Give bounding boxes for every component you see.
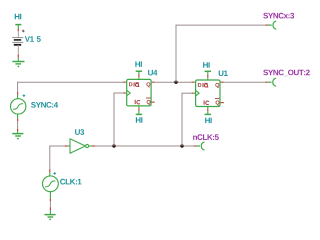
wire CLK to ground bbox=[49, 201, 51, 208]
ground (SYNC) bbox=[12, 134, 23, 140]
source SYNC plus sign bbox=[23, 94, 26, 97]
U4 Qbar pin (unconnected) bbox=[151, 101, 155, 103]
label U1 bbox=[219, 71, 228, 77]
terminal bar HI (U4 bottom) bbox=[136, 113, 142, 115]
battery V1 name label bbox=[25, 36, 34, 42]
U1 pin label Q bbox=[215, 83, 219, 88]
source CLK circle bbox=[43, 176, 59, 192]
label CLK:1 bbox=[60, 179, 81, 185]
battery V1 plus sign bbox=[22, 30, 25, 33]
inverter U3 input pin bbox=[65, 145, 70, 147]
source SYNC waveform bbox=[13, 104, 23, 110]
wire SYNCx horizontal bbox=[176, 24, 266, 26]
ground pin (CLK) bbox=[49, 208, 51, 215]
U4 pin label Qbar bbox=[146, 98, 151, 105]
junction (U1 clock branch) bbox=[180, 144, 183, 147]
ground pin (SYNC) bbox=[17, 129, 19, 134]
U4 clock pin bbox=[123, 92, 127, 94]
U1 clock pin bbox=[192, 92, 196, 94]
net label SYNC_OUT:2 bbox=[263, 70, 310, 77]
label U3 bbox=[75, 129, 84, 135]
source SYNC bottom pin bbox=[17, 114, 19, 121]
U4 clear pin bbox=[138, 106, 140, 115]
terminal bar HI (U4 top) bbox=[136, 70, 142, 72]
wire U4 clock vertical bbox=[113, 93, 115, 147]
U1 pin label D bbox=[198, 83, 202, 87]
junction (U4 clock branch) bbox=[112, 144, 115, 147]
terminal nCLK port bbox=[194, 142, 204, 150]
inverter U3 triangle bbox=[70, 139, 85, 154]
terminal bar HI (U1 top) bbox=[205, 70, 211, 72]
wire SYNC to ground bbox=[17, 121, 19, 129]
battery V1 bottom pin bbox=[17, 45, 19, 62]
wire CLK vertical bbox=[49, 146, 51, 170]
U1 pin label PR (rotated) bbox=[203, 83, 209, 88]
battery V1 value label 5 bbox=[37, 36, 41, 42]
U1 Q pin bbox=[220, 81, 224, 83]
wire U1 clock vertical bbox=[181, 93, 183, 146]
U4 pin label D bbox=[129, 82, 133, 86]
label SYNC:4 bbox=[31, 102, 58, 108]
net label nCLK:5 bbox=[193, 134, 219, 140]
junction (SYNCx branch) bbox=[174, 81, 177, 84]
wire SYNC vertical up bbox=[17, 82, 19, 93]
terminal SYNC_OUT port bbox=[265, 78, 275, 86]
battery V1 plates bbox=[12, 38, 23, 45]
wire nCLK horizontal bbox=[95, 145, 194, 147]
U4 pin label PR (rotated) bbox=[134, 82, 140, 87]
U4 preset pin bbox=[138, 71, 140, 79]
U1 Qbar pin (unconnected) bbox=[220, 102, 224, 104]
net label SYNCx:3 bbox=[263, 13, 294, 19]
flip-flop U1 body bbox=[196, 80, 220, 107]
node HI label (U1 top) bbox=[203, 62, 210, 67]
source CLK waveform bbox=[45, 181, 55, 187]
terminal bar HI (U1 bottom) bbox=[205, 113, 211, 115]
U4 pin label CL (rotated) bbox=[135, 100, 140, 104]
source SYNC top pin bbox=[17, 92, 19, 99]
U4 D pin bbox=[123, 81, 127, 83]
node HI label (battery top) bbox=[15, 14, 22, 19]
inverter U3 output pin bbox=[89, 145, 95, 147]
U4 Q pin bbox=[151, 81, 155, 83]
U1 pin label CL (rotated) bbox=[204, 100, 209, 104]
U4 pin label Q bbox=[146, 82, 150, 87]
node HI label (U4 bottom) bbox=[136, 117, 143, 123]
U1 D pin bbox=[192, 81, 196, 83]
battery V1 top pin bbox=[17, 25, 19, 38]
terminal bar HI (battery top) bbox=[15, 24, 21, 26]
wire U4 clock horizontal bbox=[114, 92, 124, 94]
U1 clear pin bbox=[207, 107, 209, 115]
wire SYNCx vertical bbox=[175, 25, 177, 83]
flip-flop U4 body bbox=[127, 79, 151, 106]
flip-flop U4 clock notch bbox=[127, 90, 130, 95]
ground (CLK) bbox=[45, 215, 56, 221]
node HI label (U4 top) bbox=[135, 61, 142, 67]
wire U1 clock horizontal bbox=[182, 92, 192, 94]
flip-flop U1 clock notch bbox=[196, 91, 199, 96]
inverter U3 bubble bbox=[86, 144, 89, 147]
wire U1 Q to SYNC_OUT bbox=[224, 81, 266, 83]
label U4 bbox=[148, 70, 157, 76]
wire CLK to U3 horizontal bbox=[49, 145, 65, 147]
U1 preset pin bbox=[207, 71, 209, 80]
wire U4 Q to U1 D bbox=[155, 81, 192, 83]
U1 pin label Qbar bbox=[215, 99, 220, 106]
wire SYNC to U4 D horizontal bbox=[17, 81, 123, 83]
source CLK bottom pin bbox=[49, 192, 51, 201]
source SYNC circle bbox=[11, 99, 26, 114]
source CLK top pin bbox=[49, 169, 51, 176]
terminal SYNCx port bbox=[266, 21, 276, 29]
node HI label (U1 bottom) bbox=[205, 118, 212, 124]
source CLK plus sign bbox=[53, 172, 56, 175]
ground (battery) bbox=[12, 62, 24, 68]
